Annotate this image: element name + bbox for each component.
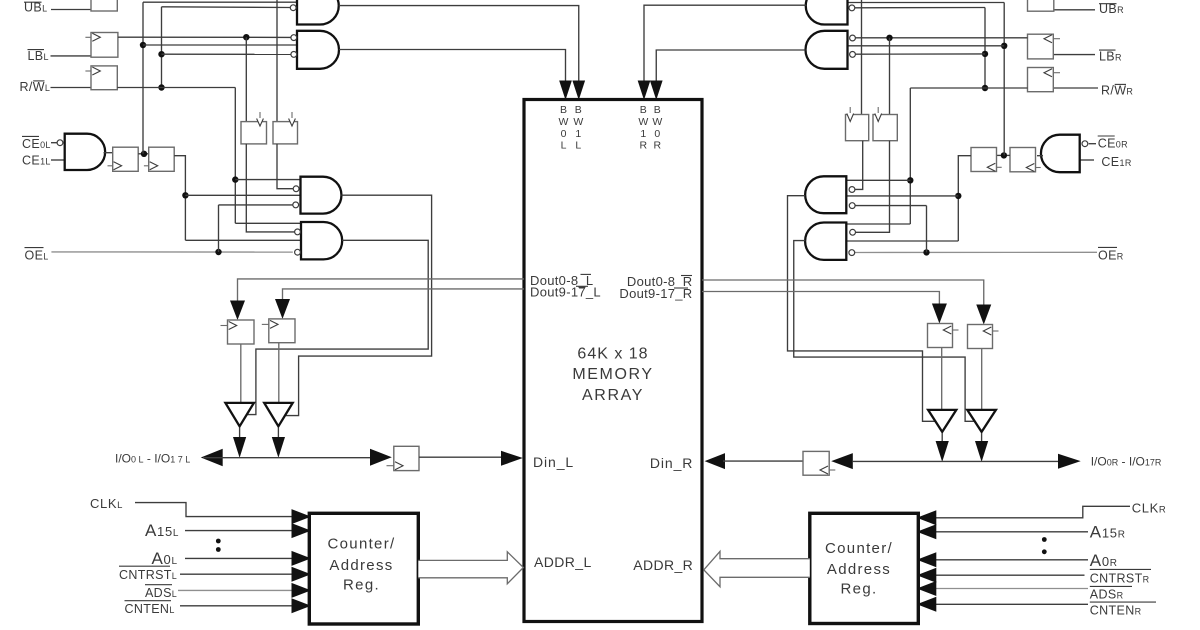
svg-text:0: 0 xyxy=(561,128,567,140)
wire CE_R net vertical xyxy=(1003,3,1005,156)
arrow A15L xyxy=(292,523,312,538)
arrow Dout0-8_L into reg xyxy=(230,301,245,321)
svg-text:R/WR: R/WR xyxy=(1101,84,1133,98)
svg-text:1: 1 xyxy=(640,128,646,140)
wire buffer2 to bus xyxy=(277,428,279,438)
wire CE_R stage1 to stage2 xyxy=(997,154,1011,156)
wire buffer1 to bus xyxy=(239,428,241,438)
wire CE1_L stub xyxy=(51,159,65,161)
counter/address reg box right xyxy=(810,513,919,623)
arrow CNTEN_R xyxy=(917,597,937,612)
junction CE_R net / gate2R feed xyxy=(1001,43,1007,49)
wire R/W_R to gate3R xyxy=(846,179,910,181)
arrow bufferR1 to bus xyxy=(936,441,949,462)
junction OE_L xyxy=(215,249,221,255)
wire I/O_R bus xyxy=(853,460,1059,462)
svg-text:OER: OER xyxy=(1098,248,1124,262)
wire CE_R out xyxy=(958,156,971,241)
wire CE_R to gate3R xyxy=(846,195,958,197)
svg-text:W: W xyxy=(573,116,583,128)
wire R/W to gate3 xyxy=(235,179,300,181)
and-gate UB write U2 xyxy=(297,0,339,25)
arrow BW0R into memory xyxy=(650,81,663,101)
wire Dout9-17_L xyxy=(283,289,525,300)
buffer triangle 2 xyxy=(264,403,293,426)
svg-text:LBL: LBL xyxy=(28,49,49,63)
bubble gate2R input b xyxy=(850,52,856,58)
svg-text:0: 0 xyxy=(654,128,660,140)
junction R/W_R net on R/W line xyxy=(982,85,988,91)
wire A15R xyxy=(936,531,1088,533)
arrow CLK_R xyxy=(917,510,937,525)
wire LB_L to register xyxy=(51,55,92,57)
svg-text:R: R xyxy=(640,140,648,152)
arrow BW1L into memory xyxy=(572,81,585,101)
wire OE_L up branch xyxy=(218,205,220,252)
wire A15L xyxy=(185,530,292,532)
wire R/W net vertical lower xyxy=(234,88,236,224)
register Dout_R bank1 xyxy=(928,324,953,348)
arrow bus into Din_L reg xyxy=(370,449,392,466)
wire OE_R up branch xyxy=(926,206,928,253)
svg-text:CE1R: CE1R xyxy=(1101,155,1131,169)
wire LB reg out to gate2 bubble xyxy=(118,36,291,38)
arrow A15R xyxy=(917,524,937,539)
register Dout_L bank1 xyxy=(228,320,255,344)
arrow buffer1 to bus xyxy=(233,437,246,458)
arrow Dout9-17_L into reg xyxy=(275,299,290,319)
register Dout_L bank2 xyxy=(269,319,295,343)
wire I/O_L bus xyxy=(203,457,371,459)
svg-text:W: W xyxy=(652,116,662,128)
arrow BW0L into memory xyxy=(559,81,572,101)
wire bufferR1 to bus xyxy=(941,433,943,442)
svg-text:CNTRSTL: CNTRSTL xyxy=(119,568,177,582)
svg-text:B: B xyxy=(575,104,582,116)
svg-text:Counter/: Counter/ xyxy=(825,540,893,557)
arrow bufferR2 to bus xyxy=(975,441,988,462)
arrow BW1R into memory xyxy=(638,81,651,101)
bubble gate3 input a xyxy=(293,186,299,192)
svg-text:CE0L: CE0L xyxy=(22,137,51,151)
wire R/W to gate4 xyxy=(235,222,301,224)
svg-text:ADDR_R: ADDR_R xyxy=(633,557,693,573)
inverter bubble CE0_L xyxy=(57,140,63,146)
buffer triangle R1 xyxy=(928,410,956,432)
bubble gate3R input a xyxy=(849,187,855,193)
svg-text:W: W xyxy=(638,116,648,128)
arrow CNTEN_L xyxy=(292,598,312,613)
svg-text:I/O0 L - I/O1 7 L: I/O0 L - I/O1 7 L xyxy=(115,451,190,465)
register R/W_L xyxy=(91,66,117,90)
buffer triangle R2 xyxy=(967,410,996,432)
wire R/W_R to gate4R xyxy=(846,223,910,225)
wire R/W_L to register xyxy=(51,87,92,89)
wire Dout0-8_R xyxy=(702,280,984,305)
junction R/W lower / gate3 feed xyxy=(232,176,238,182)
wire top net down to BW regRa xyxy=(861,0,863,115)
arrow I/O_R out xyxy=(1058,454,1081,469)
junction CE_R interstage xyxy=(1001,152,1007,158)
wire top net down to BW reg2 xyxy=(276,0,278,122)
wire CE_R gate to register xyxy=(1037,155,1043,157)
wire CE_R net to gate1R xyxy=(848,2,1005,4)
svg-text:Din_R: Din_R xyxy=(650,455,693,471)
svg-text:ADSR: ADSR xyxy=(1090,588,1124,602)
bubble gate4R input a xyxy=(850,229,856,235)
wire CE_R net to gate2R xyxy=(848,45,1005,47)
bus arrow ADDR_R xyxy=(704,551,810,586)
register BW_R word1 xyxy=(846,115,869,141)
memory array box xyxy=(524,100,702,622)
wire LB_R reg in from gate2R bubble xyxy=(855,37,1027,39)
wire bufferR2 to bus xyxy=(981,433,983,442)
register Dout_R bank2 xyxy=(968,325,993,349)
arrow Din_R into memory xyxy=(705,453,725,469)
register UB_L (top cropped) xyxy=(91,0,117,11)
wire CNTEN_L xyxy=(180,605,292,607)
wire BW regRb out to gate4R bubble xyxy=(856,141,890,233)
wire CNTRST_L xyxy=(180,573,292,575)
svg-text:W: W xyxy=(559,116,569,128)
and-gate LB_R write U8 xyxy=(806,31,848,69)
wire CE0_L stub xyxy=(51,142,57,144)
and-gate UB_R write U7 xyxy=(806,0,848,25)
wire CLK_R xyxy=(936,506,1130,518)
and-gate CE_R U6 xyxy=(1041,135,1080,173)
bubble gate1R input xyxy=(849,5,855,11)
svg-text:1: 1 xyxy=(575,128,581,140)
wire R/W_R reg to label xyxy=(1053,87,1098,89)
wire R/W_R reg line xyxy=(910,87,1027,89)
svg-text:MEMORY: MEMORY xyxy=(572,366,653,383)
wire Dout9-17_R xyxy=(702,292,939,305)
svg-text:ARRAY: ARRAY xyxy=(582,387,644,404)
bus arrow ADDR_L xyxy=(418,552,523,584)
counter/address reg box left xyxy=(309,513,418,624)
wire OE_R to gate3R bubble xyxy=(855,205,926,207)
register CE_R stage2 xyxy=(971,148,997,172)
register CE_L stage2 xyxy=(149,147,175,171)
svg-text:Din_L: Din_L xyxy=(533,454,574,470)
arrow ADS_R xyxy=(917,581,937,596)
and-gate read ctl U10 xyxy=(805,223,846,260)
svg-text:Address: Address xyxy=(827,561,891,578)
junction OE_R xyxy=(923,249,929,255)
bubble gate3R input b xyxy=(849,203,855,209)
wire CE1_R stub xyxy=(1080,159,1094,161)
wire OE_L to gate3 bubble xyxy=(219,204,293,206)
and-gate CE_L U1 xyxy=(65,134,105,170)
wire memory to Din_R reg xyxy=(723,460,803,462)
wire CE to gate3 xyxy=(185,194,300,196)
arrow buffer2 to bus xyxy=(272,437,285,458)
svg-text:L: L xyxy=(575,140,581,152)
arrow bus into Din_R reg xyxy=(831,453,853,469)
bubble gate2R input a xyxy=(850,35,856,41)
wire gate4R out to bufferR2 enable xyxy=(794,241,974,422)
wire CE to gate4 xyxy=(185,239,301,241)
svg-text:ADDR_L: ADDR_L xyxy=(534,554,592,570)
wire CE out xyxy=(174,156,185,241)
wire ADS_R xyxy=(936,588,1088,590)
wire Dout0-8_L xyxy=(238,279,525,301)
ellipsis dots right xyxy=(1042,537,1047,542)
wire CNTEN_R xyxy=(936,603,1088,605)
wire UB_R reg to label xyxy=(1054,9,1095,11)
svg-text:Counter/: Counter/ xyxy=(328,536,396,553)
arrow I/O_L out xyxy=(201,449,223,467)
and-gate read ctl U5 xyxy=(301,222,342,259)
wire reg1 to buffer1 xyxy=(240,344,242,403)
register BW_R word0 xyxy=(873,115,897,141)
svg-text:CE1L: CE1L xyxy=(22,154,51,168)
junction LB net xyxy=(243,34,249,40)
svg-text:64K x 18: 64K x 18 xyxy=(577,346,648,363)
bubble gate4 input a xyxy=(295,229,301,235)
bubble gate3 input b xyxy=(293,202,299,208)
wire Din_L reg to memory xyxy=(419,456,502,458)
svg-text:CE0R: CE0R xyxy=(1098,137,1128,151)
wire BW reg1 out to gate4 bubble xyxy=(246,144,294,232)
svg-text:Address: Address xyxy=(329,557,393,574)
wire CLK_L xyxy=(135,503,292,517)
bubble gate4 input b xyxy=(295,249,301,255)
wire CE_R to gate4R xyxy=(846,240,958,242)
buffer triangle 1 xyxy=(225,403,254,426)
register CE_L stage1 xyxy=(113,147,139,171)
register BW_L word1 xyxy=(273,122,298,144)
junction LB_R net xyxy=(886,35,892,41)
bubble gate1 input xyxy=(290,5,296,11)
svg-text:B: B xyxy=(560,104,567,116)
wire LB_R reg to label xyxy=(1053,54,1095,56)
wire CE net vertical xyxy=(142,2,144,154)
wire gate1 out to BW1L xyxy=(339,6,579,81)
wire OE_L xyxy=(51,251,292,253)
wire CE gate to register xyxy=(104,152,113,154)
wire CE net to gate1 xyxy=(143,1,297,3)
register UB_R (top cropped) xyxy=(1028,0,1054,11)
arrow Din_L into memory xyxy=(501,451,523,466)
svg-text:CNTENR: CNTENR xyxy=(1090,604,1142,618)
arrow A0R xyxy=(917,552,937,567)
svg-text:OEL: OEL xyxy=(25,249,49,263)
wire R/W_R net vertical lower xyxy=(909,88,911,224)
svg-text:B: B xyxy=(654,104,661,116)
svg-text:Reg.: Reg. xyxy=(343,577,380,594)
wire gate2 out to BW0L xyxy=(339,50,566,82)
wire regR2 to bufferR2 xyxy=(981,349,983,410)
register R/W_R xyxy=(1028,68,1054,92)
wire R/W reg out xyxy=(117,87,235,89)
wire BW reg2 out to gate3 bubble xyxy=(277,144,293,189)
wire gate3 out to buffer2 enable xyxy=(286,195,432,415)
wire CE stage1 to stage2 xyxy=(138,153,149,155)
register CE_R stage1 xyxy=(1010,148,1036,172)
wire R/W net vertical upper xyxy=(161,7,163,88)
arrow CNTRST_R xyxy=(917,568,937,583)
junction R/W_R lower / gate3R feed xyxy=(907,177,913,183)
svg-text:L: L xyxy=(561,140,567,152)
svg-text:B: B xyxy=(640,104,647,116)
svg-text:CNTRSTR: CNTRSTR xyxy=(1090,572,1150,586)
svg-text:Dout9-17_L: Dout9-17_L xyxy=(530,285,601,300)
register BW_L word0 xyxy=(241,122,267,144)
inverter bubble CE0_R xyxy=(1082,141,1088,147)
wire regR1 to bufferR1 xyxy=(941,348,943,410)
junction CE interstage xyxy=(141,151,147,157)
register LB_R xyxy=(1028,34,1054,59)
svg-text:LBR: LBR xyxy=(1099,50,1122,64)
bubble gate2 input a xyxy=(291,35,297,41)
bubble gate2 input b xyxy=(291,52,297,58)
wire reg2 to buffer2 xyxy=(278,343,280,403)
arrow CLK_L xyxy=(292,509,312,524)
wire R/W_R net to gate1R bubble xyxy=(855,7,985,9)
bubble gate4R input b xyxy=(849,250,855,256)
wire R/W net to gate2 bubble xyxy=(162,53,291,55)
arrow Dout0-8_R into reg xyxy=(976,305,991,325)
wire ADS_L xyxy=(178,589,292,591)
arrow A0L xyxy=(292,551,312,566)
junction CE_R out / gate3R feed xyxy=(955,193,961,199)
wire CE net to gate2 xyxy=(143,44,297,46)
wire gate1R out to BW1R xyxy=(644,5,806,81)
wire CE0_R stub xyxy=(1089,143,1096,145)
wire gate4 out to buffer1 enable xyxy=(247,240,428,414)
svg-text:I/O0R - I/O17R: I/O0R - I/O17R xyxy=(1091,455,1162,469)
junction CE out / gate3 feed xyxy=(182,192,188,198)
wire gate2R out to BW0R xyxy=(656,50,805,81)
svg-text:Reg.: Reg. xyxy=(841,581,878,598)
junction R/W net on R/W line xyxy=(158,84,164,90)
wire R/W net to gate1 bubble xyxy=(162,6,291,9)
ellipsis dots left xyxy=(216,539,221,544)
wire R/W_R net vertical upper xyxy=(984,8,986,89)
and-gate LB write U3 xyxy=(297,31,339,69)
wire LB_R net down to BW regRb xyxy=(889,38,891,115)
wire LB net down to BW reg1 xyxy=(245,37,247,121)
wire UB_L to register xyxy=(51,9,91,11)
wire A0R xyxy=(936,559,1088,561)
wire BW regRa out to gate3R bubble xyxy=(855,141,863,190)
register Din_R xyxy=(803,451,829,475)
wire R/W_R net to gate2R bubble xyxy=(855,53,985,55)
junction R/W_R net / gate2R feed xyxy=(982,51,988,57)
arrow Dout9-17_R into reg xyxy=(932,304,947,324)
and-gate read ctl U4 xyxy=(301,177,342,214)
wire CNTRST_R xyxy=(936,574,1085,576)
wire gate3R out to bufferR1 enable xyxy=(788,196,935,422)
junction R/W net / gate2 feed xyxy=(158,51,164,57)
wire A0L xyxy=(185,557,292,559)
register Din_L xyxy=(394,446,419,470)
arrow CNTRST_L xyxy=(292,567,312,582)
arrow ADS_L xyxy=(292,583,312,598)
register LB_L xyxy=(91,33,118,58)
svg-text:CNTENL: CNTENL xyxy=(125,602,175,616)
junction CE net / gate2 feed xyxy=(140,42,146,48)
svg-text:R: R xyxy=(654,140,662,152)
svg-text:R/WL: R/WL xyxy=(20,80,51,94)
and-gate read ctl U9 xyxy=(805,176,846,213)
wire OE_R xyxy=(855,251,1097,253)
svg-text:ADSL: ADSL xyxy=(145,586,177,600)
